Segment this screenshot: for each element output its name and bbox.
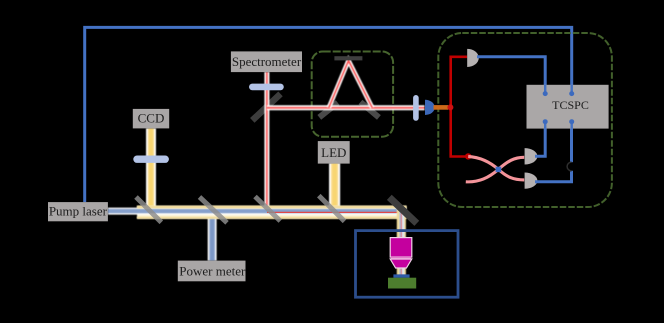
label LED [318,141,350,164]
objective nose cone [390,259,412,268]
mirror M5 (to objective) [389,197,417,223]
wire D1 to TCSPC [535,123,545,156]
svg-text:Pump laser: Pump laser [49,203,108,218]
mirror M1 (CCD pick-off) [136,197,161,222]
lens L2 (CCD) [133,156,169,163]
beam: LED vertical (yellow) [329,163,340,211]
sample holder [393,274,409,277]
beam: monochromator triangle legs [329,61,373,108]
wire pin stub top-right [571,85,573,94]
fiber splitter arm B [468,156,524,180]
wire sync: Pump laser to TCSPC [85,27,572,202]
pin TCSPC bottom-right [569,119,574,124]
objective body [390,238,412,258]
fiber coupler (blue) [425,100,435,115]
fiber stub (orange) [434,105,449,110]
detector D2 [525,172,538,188]
wire D2 to TCSPC (with hop) [535,171,572,182]
beam: spectrometer vertical (red) [264,72,269,210]
detection box (dashed) [438,33,612,207]
svg-text:CCD: CCD [138,110,165,125]
mirror mono-left [319,103,337,118]
wire pin stub top-left [544,85,546,94]
beam: vertical into objective [400,207,403,239]
mirror M4 (LED combiner) [319,196,345,222]
beam: CCD vertical (yellow) [146,128,156,211]
detector D0 [467,49,479,67]
sample chamber box [356,231,459,298]
pin TCSPC top-left [543,91,548,96]
beam: main row yellow edges [137,207,407,218]
fiber splitter arm A [466,157,524,182]
label Power meter [178,261,246,282]
mirror spectrometer fold [252,94,280,121]
beam: main row red (return) [267,211,407,213]
mirror M3 (spectrometer pick-off) [255,197,280,222]
objective separator [391,257,412,259]
grating (monochromator top) [334,56,362,60]
detector D1 [525,148,538,164]
svg-text:Spectrometer: Spectrometer [232,54,302,69]
beam: main row yellow band [137,206,407,219]
pin TCSPC top-right [569,91,574,96]
wire D0 to TCSPC [477,57,545,92]
lens L1 (spectrometer) [249,84,284,91]
monochromator box (dashed) [312,52,393,137]
node fiber junction [447,104,453,110]
beam: power meter branch (blue) [208,213,217,261]
lens L3 (fiber coupling) [413,95,419,121]
wire pin stub bottom-left [544,122,546,129]
wire hop [567,162,571,171]
pin TCSPC bottom-left [543,119,548,124]
sample [388,278,416,289]
beam: main row blue (pump) [108,208,407,215]
wire red (to detector D0 and splitter) [451,57,469,157]
svg-text:Power meter: Power meter [179,263,246,278]
svg-text:TCSPC: TCSPC [552,98,589,112]
TCSPC unit [527,85,609,129]
beam: objective tip to sample [400,268,403,276]
mirror M2 (power meter splitter) [200,197,228,223]
beam: monochromator horizontal (red) [267,105,425,110]
mirror mono-right [361,102,379,117]
label CCD [133,109,169,128]
label Spectrometer [231,51,302,72]
fiber splitter coupling point [496,167,502,172]
label Pump laser [48,202,108,221]
node splitter input [465,153,471,159]
svg-text:LED: LED [321,145,346,160]
wire pin stub bottom-right [571,122,573,129]
